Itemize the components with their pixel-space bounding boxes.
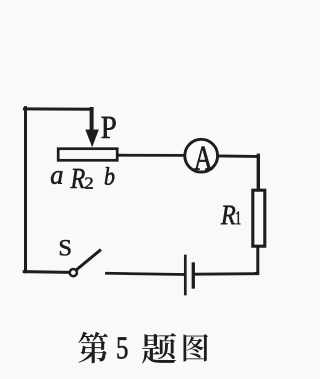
wire battery to bottom-right corner: [195, 272, 258, 275]
switch S pivot: [70, 269, 77, 276]
label P: [102, 117, 116, 138]
caption char 图: [184, 334, 209, 362]
wire top: [25, 107, 93, 110]
wire switch to battery: [107, 273, 185, 274]
ammeter A body: [185, 139, 218, 172]
caption char 题: [142, 333, 176, 364]
battery short plate: [192, 264, 195, 287]
label R2: [70, 169, 84, 188]
label S: [60, 240, 71, 256]
wire right vertical upper: [257, 155, 260, 189]
ammeter label A: [194, 147, 213, 170]
resistor R1 body: [253, 190, 265, 246]
switch S lever: [77, 251, 100, 270]
battery long plate: [184, 256, 187, 294]
wire right vertical lower: [256, 247, 258, 274]
label a: [51, 171, 63, 184]
label b: [105, 167, 115, 185]
wire R2 to ammeter: [118, 154, 184, 157]
slider P arrowhead: [85, 130, 99, 148]
wire bottom-left corner to switch: [24, 270, 69, 274]
wire ammeter to top-right corner: [218, 155, 257, 158]
wire slider stem: [90, 109, 94, 131]
caption char 5: [118, 337, 128, 358]
wire left: [24, 108, 27, 272]
rheostat R2 body: [58, 149, 117, 161]
label R1: [221, 206, 236, 225]
caption char 第: [78, 332, 108, 363]
